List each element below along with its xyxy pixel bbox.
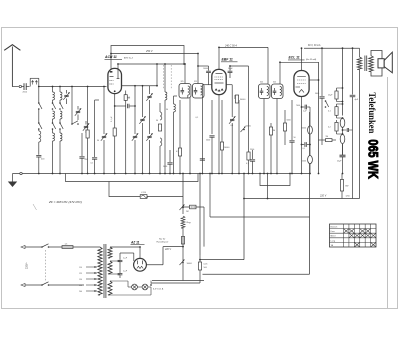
svg-text:0,1: 0,1 bbox=[303, 148, 306, 150]
svg-text:Kurz: Kurz bbox=[331, 231, 335, 233]
svg-text:EBF 11: EBF 11 bbox=[222, 58, 233, 62]
coil L1 bbox=[38, 129, 40, 131]
svg-text:10000: 10000 bbox=[187, 263, 192, 265]
wire bbox=[110, 260, 120, 262]
svg-text:10000: 10000 bbox=[224, 147, 229, 149]
resistor R22 bbox=[124, 95, 127, 101]
svg-text:220V~: 220V~ bbox=[26, 261, 29, 269]
trimmer C3 bbox=[64, 94, 68, 96]
wire bbox=[139, 247, 141, 258]
trimmer C13 bbox=[149, 86, 151, 94]
svg-text:250 V: 250 V bbox=[145, 50, 153, 53]
resistor R1 bbox=[87, 87, 89, 131]
wire gang dash bbox=[163, 65, 165, 89]
wire bbox=[218, 95, 220, 174]
resistor R3 bbox=[159, 103, 161, 112]
wire speaker loop bbox=[371, 51, 382, 77]
resistor R10 bbox=[270, 123, 272, 127]
tube EBF11 bbox=[212, 69, 226, 94]
resistor R20 bbox=[199, 255, 201, 262]
resistor R25 bbox=[340, 118, 345, 127]
pot R6b bbox=[241, 127, 246, 133]
trimmer C5 bbox=[84, 125, 88, 127]
coil L3 bbox=[53, 111, 55, 119]
pot R16 bbox=[180, 205, 185, 211]
wire reg line bbox=[182, 174, 184, 204]
wire bbox=[52, 100, 54, 103]
lamp E1 bbox=[132, 284, 138, 290]
svg-text:220 V: 220 V bbox=[319, 195, 327, 198]
lamp E2 bbox=[142, 284, 148, 290]
capacitor C7 bbox=[94, 100, 96, 157]
svg-text:0,1 μF: 0,1 μF bbox=[111, 116, 113, 122]
svg-text:325: 325 bbox=[273, 81, 276, 83]
capacitor C1 bbox=[23, 83, 25, 90]
capacitor C18 bbox=[211, 100, 213, 134]
coil L5 bbox=[59, 87, 61, 93]
coil L7 bbox=[60, 133, 62, 141]
svg-text:AZ 11: AZ 11 bbox=[130, 241, 140, 245]
wire bbox=[182, 244, 184, 259]
transformer T5 secondary bbox=[369, 56, 374, 72]
wire bbox=[184, 64, 186, 84]
svg-text:2500: 2500 bbox=[250, 149, 254, 151]
wire bbox=[203, 273, 310, 275]
switch S6a bbox=[41, 246, 43, 248]
wire bbox=[49, 284, 85, 286]
coil L8 bbox=[164, 64, 166, 92]
svg-text:240 C 50-4: 240 C 50-4 bbox=[224, 44, 237, 47]
wire bbox=[59, 100, 61, 103]
transformer T5 primary bbox=[359, 48, 361, 57]
switch S5 bbox=[325, 100, 327, 102]
speaker LS magnet bbox=[378, 59, 384, 68]
transformer T6 HT bbox=[108, 247, 112, 258]
wire bbox=[110, 54, 112, 59]
resistor R23 bbox=[308, 156, 313, 164]
wire bbox=[342, 48, 344, 115]
switch S3a bbox=[59, 102, 61, 104]
svg-text:ECL 11: ECL 11 bbox=[289, 56, 300, 60]
resistor R19 bbox=[190, 205, 197, 209]
wire bbox=[183, 206, 204, 208]
antenna A1 bbox=[4, 45, 20, 51]
svg-text:0,1: 0,1 bbox=[328, 111, 331, 113]
coil L9 bbox=[173, 100, 175, 104]
svg-text:U 110: U 110 bbox=[141, 192, 146, 194]
capacitor C20 bbox=[252, 150, 254, 159]
svg-text:325: 325 bbox=[181, 81, 184, 83]
trimmer C8 bbox=[103, 87, 105, 135]
wire bbox=[49, 246, 63, 248]
wire bbox=[156, 64, 158, 86]
wire bbox=[218, 47, 220, 69]
wire screen rail 250V bbox=[111, 53, 198, 55]
resistor R17 Reg bbox=[181, 216, 185, 228]
svg-text:0,3: 0,3 bbox=[246, 163, 249, 165]
capacitor C28 bbox=[342, 129, 344, 131]
svg-text:AHG 5a-5: AHG 5a-5 bbox=[123, 56, 134, 59]
IF can T1 bbox=[179, 84, 191, 99]
ground bbox=[12, 174, 14, 182]
switch S4 bbox=[71, 123, 73, 125]
resistor R12 bbox=[301, 96, 303, 173]
svg-text:240: 240 bbox=[79, 291, 82, 293]
wire bbox=[110, 246, 140, 248]
wire bbox=[309, 79, 318, 81]
tube EBF11 internals bbox=[216, 73, 223, 75]
svg-text:Telefunken: Telefunken bbox=[367, 92, 377, 133]
wire grid T4 bbox=[280, 61, 319, 63]
capacitor C9 bbox=[114, 94, 116, 107]
svg-text:325: 325 bbox=[194, 81, 197, 83]
wire bbox=[203, 207, 205, 247]
table band chart bbox=[330, 224, 377, 247]
resistor R24 bbox=[319, 139, 326, 141]
svg-text:0,1: 0,1 bbox=[91, 163, 94, 165]
tube AZ11 bbox=[134, 258, 147, 271]
wire bbox=[263, 99, 265, 174]
svg-text:0,1: 0,1 bbox=[231, 125, 234, 127]
svg-text:(Hn 32 mA): (Hn 32 mA) bbox=[306, 58, 317, 61]
resistor R26 bbox=[340, 134, 345, 143]
resistor R21 bbox=[341, 174, 343, 180]
transformer T6 heater bbox=[108, 281, 112, 295]
svg-text:150: 150 bbox=[79, 279, 82, 281]
svg-text:Lang: Lang bbox=[331, 240, 335, 242]
wire bbox=[22, 86, 24, 88]
wire bbox=[209, 174, 211, 218]
svg-text:110: 110 bbox=[79, 267, 82, 269]
capacitor C14 bbox=[169, 150, 171, 162]
resistor R14 bbox=[335, 91, 338, 99]
resistor R2 bbox=[114, 106, 116, 174]
trimmer C11 bbox=[134, 86, 136, 134]
antenna switch S1 bbox=[29, 78, 31, 86]
wire bbox=[110, 280, 128, 282]
switch S2a bbox=[52, 102, 54, 104]
svg-text:60 V, 30 mA: 60 V, 30 mA bbox=[308, 44, 321, 47]
tube ACH11 bbox=[108, 68, 122, 93]
capacitor C25 bbox=[119, 253, 121, 260]
svg-text:125: 125 bbox=[79, 273, 82, 275]
pot R18 bbox=[180, 260, 185, 266]
capacitor C26 bbox=[301, 144, 303, 146]
wire bbox=[110, 54, 112, 69]
wire plate rail H1 bbox=[111, 46, 184, 65]
wire bbox=[146, 264, 163, 266]
transformer T6 core bbox=[103, 244, 105, 298]
capacitor C24 bbox=[352, 48, 354, 94]
svg-text:Bereich: Bereich bbox=[331, 227, 338, 229]
resistor R7 bbox=[248, 66, 250, 152]
svg-text:Hand-Export: Hand-Export bbox=[157, 240, 169, 243]
resistor R15 bbox=[335, 107, 338, 116]
svg-text:ACH 11: ACH 11 bbox=[104, 55, 117, 59]
tube AZ11 internals bbox=[137, 261, 139, 265]
wire bbox=[276, 99, 278, 174]
svg-text:0,5: 0,5 bbox=[176, 151, 179, 153]
svg-text:220 V: 220 V bbox=[164, 249, 171, 251]
svg-text:1250: 1250 bbox=[346, 196, 350, 198]
trimmer C19 bbox=[226, 84, 232, 86]
capacitor C21 bbox=[291, 100, 293, 140]
transformer T6 primary bbox=[98, 247, 102, 295]
resistor R4 bbox=[179, 100, 181, 148]
svg-text:5000: 5000 bbox=[302, 161, 306, 163]
IF can T1 parts bbox=[181, 88, 183, 91]
IF can T2 bbox=[193, 84, 205, 99]
transformer T5 core bbox=[364, 56, 366, 72]
fuse F1 bbox=[62, 246, 73, 249]
coil L6 bbox=[60, 111, 62, 119]
capacitor C2 bbox=[36, 155, 41, 157]
wire bbox=[189, 98, 191, 174]
capacitor C23 bbox=[321, 48, 323, 96]
wire loop bbox=[260, 174, 290, 186]
wire bbox=[197, 54, 199, 84]
transformer T6 taps bbox=[86, 266, 97, 268]
capacitor C27 bbox=[342, 144, 344, 155]
wire grid line bbox=[122, 85, 158, 87]
svg-text:325: 325 bbox=[260, 81, 263, 83]
trimmer C12 bbox=[142, 86, 144, 117]
IF can T4 parts bbox=[274, 88, 276, 91]
coil L4 bbox=[53, 133, 55, 141]
capacitor C6 bbox=[81, 133, 83, 156]
pencil mark bbox=[33, 204, 37, 210]
IF can T3 parts bbox=[261, 88, 263, 91]
capacitor C15 bbox=[198, 65, 209, 67]
switch S2b bbox=[52, 122, 54, 124]
antenna terminal bbox=[12, 86, 19, 88]
IF can T4 bbox=[272, 84, 284, 99]
svg-text:Nur für: Nur für bbox=[159, 237, 166, 240]
svg-text:30: 30 bbox=[156, 120, 158, 122]
wire bbox=[243, 174, 245, 260]
coil L2 bbox=[52, 87, 54, 93]
svg-text:1M: 1M bbox=[273, 130, 276, 132]
wire bbox=[151, 281, 153, 284]
svg-text:30000: 30000 bbox=[240, 99, 245, 101]
svg-text:5000: 5000 bbox=[287, 120, 291, 122]
mains terminal P1 bbox=[21, 245, 25, 248]
resistor R5 bbox=[221, 100, 223, 142]
svg-text:2M: 2M bbox=[186, 211, 189, 213]
speaker LS cone bbox=[384, 52, 392, 73]
svg-text:6,3 V 0,1 A: 6,3 V 0,1 A bbox=[153, 288, 164, 291]
svg-text:10000: 10000 bbox=[301, 128, 306, 130]
wire bbox=[117, 64, 119, 73]
fuse F2 bbox=[181, 237, 184, 245]
mains terminal P2 bbox=[21, 283, 25, 286]
wire bbox=[202, 84, 212, 86]
wire bbox=[95, 99, 99, 101]
tube ACH11 internals bbox=[110, 76, 114, 78]
page edge line bbox=[387, 77, 389, 308]
wire chassis bus bbox=[13, 173, 310, 175]
resistor R15b bbox=[335, 122, 338, 131]
pot R6 bbox=[238, 100, 240, 174]
svg-text:Mittel: Mittel bbox=[331, 235, 336, 238]
wire gang mains bbox=[45, 250, 47, 282]
capacitor C16 bbox=[229, 66, 231, 71]
switch S3b bbox=[59, 122, 61, 124]
svg-text:7000: 7000 bbox=[296, 105, 300, 107]
wire bbox=[110, 294, 151, 296]
svg-text:0,2: 0,2 bbox=[328, 127, 331, 129]
switch S7a bbox=[38, 87, 40, 104]
svg-text:5000: 5000 bbox=[206, 140, 210, 142]
resistor R11 bbox=[284, 110, 286, 123]
svg-text:10000: 10000 bbox=[203, 68, 208, 70]
trimmer C4 bbox=[76, 110, 80, 112]
svg-text:50: 50 bbox=[294, 137, 296, 139]
IF can T2 parts bbox=[195, 88, 197, 91]
wire bus B bbox=[66, 174, 199, 182]
IF can T3 bbox=[259, 84, 271, 99]
wire bus C bbox=[109, 182, 183, 197]
svg-text:50000: 50000 bbox=[246, 126, 251, 128]
wire bbox=[301, 48, 303, 70]
svg-text:60: 60 bbox=[128, 98, 130, 100]
wire bbox=[152, 280, 204, 282]
svg-text:30: 30 bbox=[166, 109, 168, 111]
svg-text:ZF = 468 kHz (472 kHz): ZF = 468 kHz (472 kHz) bbox=[48, 200, 82, 204]
wire top antenna line bbox=[39, 86, 107, 88]
wire bbox=[151, 282, 200, 284]
resistor R13 bbox=[308, 126, 313, 134]
svg-text:30: 30 bbox=[97, 140, 99, 142]
wire bbox=[267, 174, 269, 199]
resistor Urdox bbox=[140, 195, 147, 199]
wire bbox=[309, 174, 311, 275]
wire bbox=[267, 47, 269, 84]
svg-text:5000: 5000 bbox=[163, 166, 167, 168]
svg-text:5000: 5000 bbox=[315, 93, 319, 95]
capacitor C22 bbox=[301, 106, 303, 108]
capacitor C17 bbox=[200, 158, 205, 160]
tube ECL11 internals bbox=[297, 76, 306, 78]
wire bbox=[120, 252, 134, 254]
svg-text:GW: GW bbox=[345, 186, 349, 188]
resistor R8 bbox=[234, 95, 236, 99]
switch S6b bbox=[41, 284, 43, 286]
wire 220V rail bbox=[244, 198, 360, 200]
wire x200 drop bbox=[199, 174, 201, 256]
svg-text:065 WK: 065 WK bbox=[366, 139, 382, 179]
svg-text:220: 220 bbox=[79, 285, 82, 287]
wire bbox=[173, 96, 175, 100]
wire bbox=[73, 246, 100, 248]
tube ECL11 bbox=[294, 71, 309, 97]
switch S7b bbox=[38, 109, 40, 123]
wire plate rail H4 bbox=[304, 47, 360, 49]
